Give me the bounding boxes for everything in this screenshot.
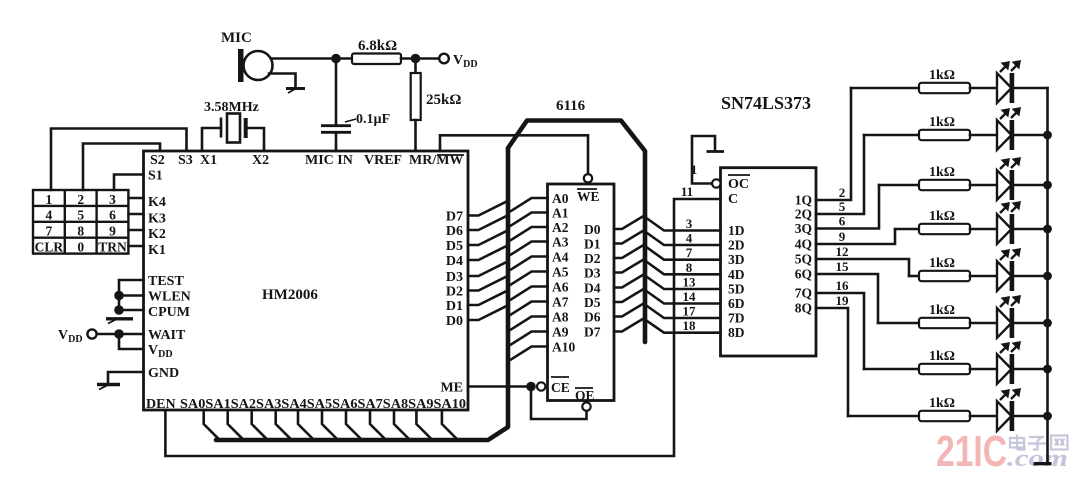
svg-text:4: 4 [46,208,53,223]
wire (HM2006 D1 to bus) [468,292,506,306]
wire (LED 2 to common rail) [1014,134,1048,137]
capacitor 0.1µF [321,112,390,132]
LED D8 [997,390,1020,432]
wire (HM2006 D6 to bus) [468,217,506,231]
svg-text:MIC IN: MIC IN [305,153,353,168]
svg-text:K3: K3 [148,212,166,227]
wire (6116 D6 to SN74LS373 17D, pin 17) [614,304,721,319]
svg-text:A9: A9 [552,325,569,340]
wire (keypad row3 to K2) [129,229,144,232]
wire (HM2006 D4 to bus) [468,247,506,261]
wire (resistor to LED 1) [970,87,997,90]
wire (HM2006 D5 to bus) [468,232,506,246]
node (rail junction) [1043,365,1052,374]
svg-text:X2: X2 [252,153,269,168]
inverter bubble (6116 WE) [584,174,592,182]
wire (HM2006 ME to 6116 CE) [468,385,531,388]
resistor 1kΩ (row 7) [919,349,970,374]
wire (to C1) [335,59,338,125]
wire (resistor to LED 5) [970,275,997,278]
svg-text:A8: A8 [552,310,569,325]
svg-text:D2: D2 [584,251,601,266]
wire (row 3 to resistor) [879,184,919,187]
svg-text:WAIT: WAIT [148,328,186,343]
svg-text:8: 8 [77,224,84,239]
svg-text:D7: D7 [584,325,601,340]
svg-text:9: 9 [109,224,116,239]
svg-text:OC: OC [728,177,749,192]
svg-text:2D: 2D [728,238,745,253]
wire (keypad col3 to S1) [114,175,144,191]
wire (SA6 to bus) [346,410,362,440]
svg-text:D3: D3 [446,270,463,285]
svg-text:D7: D7 [446,210,463,225]
wire (resistor to LED 7) [970,368,997,371]
wire (row 2 to resistor) [864,134,919,137]
resistor 1kΩ (row 3) [919,165,970,190]
SRAM U2 6116 [548,184,615,403]
wire (WLEN tie) [119,294,144,297]
svg-text:16: 16 [836,278,850,293]
wire (bus to 6116 A8) [511,317,548,330]
svg-text:7: 7 [686,245,693,260]
svg-text:D2: D2 [446,285,463,300]
svg-text:1kΩ: 1kΩ [929,396,955,411]
svg-text:14: 14 [683,289,697,304]
svg-text:8D: 8D [728,325,745,340]
svg-text:7: 7 [46,224,53,239]
resistor 1kΩ (row 1) [919,68,970,93]
wire (crystal to X2) [246,128,264,151]
resistor 1kΩ (row 8) [919,396,970,421]
svg-text:A3: A3 [552,235,569,250]
wire [401,57,416,60]
wire (DEN to SN74LS373 pin 11 C) [165,199,720,456]
svg-text:HM2006: HM2006 [262,287,318,303]
wire (bus to 6116 A6) [511,287,548,300]
wire (bus to 6116 A7) [511,302,548,315]
svg-text:A0: A0 [552,191,569,206]
wire (SA8 to bus) [394,410,410,440]
wire (keypad row4 to K1) [129,245,144,248]
wire (WAIT to VDD terminal) [97,333,144,336]
wire (mic output) [272,57,336,60]
wire (bus to 6116 A0) [511,198,548,211]
svg-text:A2: A2 [552,220,569,235]
svg-text:3Q: 3Q [795,221,812,236]
wire (R 25k to VREF pin) [414,120,417,151]
svg-text:1kΩ: 1kΩ [929,256,955,271]
wire (resistor to LED 6) [970,322,997,325]
node (rail junction) [1043,412,1052,421]
wire (GND pin) [108,372,144,383]
svg-text:TRN: TRN [98,240,127,255]
svg-text:1: 1 [46,192,53,207]
wire (LED 5 to common rail) [1014,275,1048,278]
rail end bar [1034,462,1052,465]
resistor 6.8kΩ [352,38,401,64]
inverter bubble (6116 OE) [582,402,590,410]
svg-text:D5: D5 [584,295,601,310]
wire (resistor to LED 3) [970,184,997,187]
svg-text:3: 3 [109,192,116,207]
svg-text:17: 17 [683,304,697,319]
wire (to R 25k) [414,59,417,74]
svg-text:ME: ME [440,381,463,396]
svg-text:6D: 6D [728,296,745,311]
ground (mic) [286,89,305,94]
svg-text:7D: 7D [728,311,745,326]
svg-text:D0: D0 [446,314,463,329]
wire (bus to 6116 A5) [511,272,548,285]
node (rail junction) [1043,225,1052,234]
svg-text:1kΩ: 1kΩ [929,349,955,364]
LED D5 [997,250,1020,292]
node (rail junction) [1043,319,1052,328]
wire (HM2006 D2 to bus) [468,277,506,291]
wire (373 19 Q output, pin 19) [816,308,848,416]
svg-text:D4: D4 [584,281,601,296]
wire (OC tie, pin 1) [692,136,715,184]
wire (bus to 6116 A4) [511,257,548,270]
svg-text:2: 2 [77,192,84,207]
wire (TEST tie) [119,280,144,313]
svg-text:D0: D0 [584,222,601,237]
svg-text:D3: D3 [584,266,601,281]
svg-text:1D: 1D [728,223,745,238]
svg-text:1kΩ: 1kΩ [929,165,955,180]
svg-text:2Q: 2Q [795,207,812,222]
svg-text:6Q: 6Q [795,267,812,282]
wire (MR/MW to 6116 WE) [440,135,588,173]
crystal 3.58MHz [204,100,259,143]
wire (SA3 to bus) [276,410,292,440]
svg-text:5: 5 [77,208,84,223]
wire (SA4 to bus) [298,410,314,440]
resistor 1kΩ (row 6) [919,303,970,328]
svg-text:0: 0 [77,240,84,255]
svg-text:1: 1 [691,162,698,177]
wire (resistor to LED 8) [970,415,997,418]
svg-text:WLEN: WLEN [148,290,191,305]
wire [416,57,439,60]
wire (C1 to MIC IN pin) [335,133,338,151]
node (rail junction) [1043,181,1052,190]
svg-text:A7: A7 [552,295,569,310]
wire (373 6 Q output, pin 6) [816,185,879,229]
wire (6116 D5 to SN74LS373 14D, pin 14) [614,289,721,304]
node (rail junction) [1043,131,1052,140]
wire (SA5 to bus) [322,410,338,440]
inverter bubble (373 OC) [712,179,720,187]
wire (CPUM tie) [119,309,144,312]
LED D6 [997,297,1020,339]
ground tick (OC tie) [707,150,725,153]
wire (SA1 to bus) [228,410,244,440]
svg-text:A5: A5 [552,265,569,280]
wire (SA10 to bus) [442,410,458,440]
wire (SA7 to bus) [370,410,386,440]
wire (LED 3 to common rail) [1014,184,1048,187]
power terminal VDD (left) [58,328,97,345]
wire (6116 D7 to SN74LS373 18D, pin 18) [614,319,721,333]
wire (6116 D1 to SN74LS373 4D, pin 4) [614,231,721,246]
svg-text:K4: K4 [148,195,166,210]
wire [336,57,352,60]
node (WLEN junction) [114,291,124,301]
LED D2 [997,109,1020,151]
wire (keypad row1 to K4) [129,197,144,200]
svg-text:MIC: MIC [221,30,252,46]
ground (GND pin) [97,385,120,390]
ground (TEST/WLEN/CPUM) [106,319,133,324]
svg-text:1kΩ: 1kΩ [929,209,955,224]
wire (row 1 to resistor) [851,87,919,90]
wire (bus to 6116 A2) [511,227,548,240]
svg-text:3: 3 [686,216,693,231]
wire (X1 to crystal) [202,128,221,151]
svg-text:15: 15 [836,259,850,274]
svg-text:K2: K2 [148,227,166,242]
inverter bubble (6116 CE) [537,382,545,390]
node (R 25k junction) [411,54,421,64]
svg-text:1kΩ: 1kΩ [929,303,955,318]
svg-text:WE: WE [577,189,600,204]
wire (row 7 to resistor) [864,368,919,371]
svg-text:6: 6 [839,214,846,229]
wire (row 6 to resistor) [878,322,919,325]
svg-text:SN74LS373: SN74LS373 [721,93,811,113]
svg-text:D1: D1 [446,299,463,314]
node (ME/CE/OE junction) [526,382,536,392]
svg-text:A10: A10 [552,340,575,355]
wire (keypad row2 to K3) [129,213,144,216]
svg-text:TEST: TEST [148,274,184,289]
svg-text:D6: D6 [446,224,463,239]
node (rail junction) [1043,272,1052,281]
svg-text:19: 19 [836,293,850,308]
svg-text:D5: D5 [446,239,463,254]
svg-text:9: 9 [839,229,846,244]
wire (junction to 6116 OE) [531,387,587,420]
wire (LED 6 to common rail) [1014,322,1048,325]
svg-text:X1: X1 [200,153,217,168]
wire (373 2 Q output, pin 2) [816,88,851,200]
wire (bus to 6116 A9) [511,332,548,345]
LED D3 [997,159,1020,201]
wire (373 16 Q output, pin 16) [816,293,864,369]
wire (resistor to LED 4) [970,228,997,231]
svg-text:6: 6 [109,208,116,223]
wire (resistor to LED 2) [970,134,997,137]
wire (row 5 to resistor) [909,275,919,278]
node (WAIT/VDD junction) [114,329,124,339]
svg-text:5D: 5D [728,282,745,297]
svg-text:2: 2 [839,185,846,200]
svg-text:11: 11 [681,184,693,199]
power terminal VDD (top) [439,53,477,70]
svg-text:13: 13 [683,275,697,290]
wire (HM2006 D3 to bus) [468,263,506,277]
svg-text:A4: A4 [552,250,569,265]
svg-text:OE: OE [575,388,595,403]
svg-text:5Q: 5Q [795,252,812,267]
wire (LED common rail) [1046,88,1049,463]
svg-text:6116: 6116 [556,98,586,114]
wire (HM2006 D7 to bus) [468,202,506,216]
wire (LED 8 to common rail) [1014,415,1048,418]
wire (LED 7 to common rail) [1014,368,1048,371]
svg-text:1Q: 1Q [795,193,812,208]
wire (keypad col2 to S2) [83,144,160,191]
svg-text:4: 4 [686,231,693,246]
wire (SA0 to bus) [204,410,220,440]
svg-text:1kΩ: 1kΩ [929,115,955,130]
wire (mic to ground) [269,74,296,88]
LED D4 [997,203,1020,245]
svg-text:8: 8 [686,260,693,275]
svg-text:5: 5 [839,199,846,214]
svg-text:18: 18 [683,318,697,333]
wire (6116 D0 to SN74LS373 3D, pin 3) [614,216,721,231]
svg-text:C: C [728,192,738,207]
IC U1 HM2006 [144,151,469,412]
wire (VDD pin up to WAIT wire) [119,334,144,349]
svg-text:A1: A1 [552,206,569,221]
wire (LED 4 to common rail) [1014,228,1048,231]
wire (373 9 Q output, pin 9) [816,229,895,244]
svg-text:21IC: 21IC [936,427,1007,476]
svg-text:S3: S3 [178,153,193,168]
svg-text:7Q: 7Q [795,286,812,301]
svg-text:0.1µF: 0.1µF [356,112,390,127]
wire (bus to 6116 A10) [511,347,548,360]
wire (6116 D2 to SN74LS373 7D, pin 7) [614,245,721,260]
keypad 3x4 (1-9, CLR, 0, TRN) [33,190,128,255]
wire (bus to 6116 A1) [511,213,548,226]
svg-text:A6: A6 [552,280,569,295]
svg-text:CLR: CLR [35,240,64,255]
node (CPUM junction) [114,305,124,315]
wire (373 15 Q output, pin 15) [816,274,878,323]
resistor 25kΩ [411,73,462,120]
svg-text:4D: 4D [728,267,745,282]
wire (bus to 6116 A3) [511,242,548,255]
svg-text:S2: S2 [150,153,165,168]
wire (HM2006 D0 to bus) [468,307,506,321]
resistor 1kΩ (row 5) [919,256,970,281]
svg-text:12: 12 [836,244,849,259]
latch U3 SN74LS373 [721,168,817,356]
svg-text:6.8kΩ: 6.8kΩ [358,38,397,54]
node (mic / C1 junction) [331,54,341,64]
svg-text:D1: D1 [584,237,601,252]
wire (6116 D3 to SN74LS373 8D, pin 8) [614,260,721,275]
svg-text:4Q: 4Q [795,237,812,252]
svg-text:1kΩ: 1kΩ [929,68,955,83]
LED D1 [997,62,1020,104]
svg-text:3D: 3D [728,252,745,267]
microphone MIC [221,30,273,82]
address/data bus (thick) [216,121,645,441]
wire (keypad col1 to S3) [51,129,187,191]
wire (6116 D4 to SN74LS373 13D, pin 13) [614,275,721,290]
wire (SA2 to bus) [252,410,268,440]
wire (373 12 Q output, pin 12) [816,259,909,276]
watermark 21IC.com 电子网 [936,427,1068,476]
svg-text:CPUM: CPUM [148,305,190,320]
svg-text:D4: D4 [446,254,463,269]
wire (row 4 to resistor) [895,228,919,231]
wire (SA9 to bus) [416,410,432,440]
svg-text:25kΩ: 25kΩ [426,92,461,108]
svg-text:DEN: DEN [146,397,176,412]
resistor 1kΩ (row 2) [919,115,970,140]
svg-text:K1: K1 [148,243,166,258]
svg-text:S1: S1 [148,169,163,184]
wire (LED 1 to common rail) [1014,87,1048,90]
wire (row 8 to resistor) [848,415,919,418]
svg-text:CE: CE [551,380,570,395]
svg-text:GND: GND [148,366,179,381]
resistor 1kΩ (row 4) [919,209,970,234]
svg-text:8Q: 8Q [795,301,812,316]
svg-text:VREF: VREF [364,153,402,168]
wire (373 5 Q output, pin 5) [816,135,864,214]
LED D7 [997,343,1020,385]
svg-text:D6: D6 [584,310,601,325]
